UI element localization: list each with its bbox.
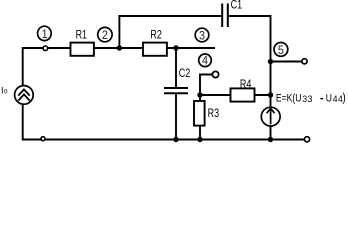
wire left vertical [22, 47, 24, 141]
svg-text:R2: R2 [150, 29, 162, 41]
node 1 [38, 26, 52, 40]
svg-text:3: 3 [199, 30, 205, 43]
junction node2 [117, 45, 122, 50]
svg-text:R4: R4 [240, 79, 252, 91]
wire bottom rail [22, 139, 305, 141]
resistor R3 [194, 101, 205, 126]
resistor R1 [71, 43, 94, 56]
svg-text:4: 4 [202, 55, 209, 68]
terminal node5 right [302, 59, 307, 64]
terminal bottom right [304, 137, 309, 142]
current source I0 [15, 86, 34, 105]
svg-text:R3: R3 [208, 108, 220, 120]
junction R3 bottom [197, 137, 202, 142]
svg-text:U: U [326, 92, 332, 104]
capacitor C1 [222, 4, 228, 28]
wire C2 bottom vertical [175, 93, 177, 140]
svg-text:C2: C2 [179, 68, 191, 80]
svg-text:0: 0 [4, 88, 8, 95]
svg-text:33: 33 [302, 94, 312, 105]
label E=K(U33 - U44) [276, 92, 346, 105]
junction C2 bottom [173, 137, 178, 142]
resistor R4 [231, 88, 255, 101]
junction node5 [268, 59, 273, 64]
wire C1 to right corner [228, 15, 271, 17]
wire C2 vertical [175, 48, 177, 88]
node 4 [199, 54, 212, 67]
svg-text:R1: R1 [76, 29, 88, 41]
wire R3 vertical [199, 95, 201, 140]
terminal on bottom rail [41, 137, 45, 141]
svg-text:): ) [342, 92, 346, 105]
junction node4 [197, 92, 202, 97]
wire node4 elbow [200, 75, 213, 97]
node 3 [195, 28, 209, 42]
node 5 [274, 43, 288, 57]
wire right vertical [270, 15, 272, 141]
svg-text:E=K(U: E=K(U [276, 92, 302, 104]
wire node2 vertical to top rail [118, 16, 120, 49]
node 2 [98, 27, 112, 41]
wire node5 stub [271, 61, 303, 63]
terminal on top wire [43, 46, 48, 51]
svg-text:5: 5 [278, 44, 284, 57]
junction node3 [173, 45, 178, 50]
capacitor C2 [164, 88, 188, 93]
svg-text:2: 2 [102, 30, 108, 43]
svg-text:1: 1 [42, 28, 48, 41]
junction E bottom [268, 137, 273, 142]
terminal node4 [212, 71, 218, 77]
resistor R2 [143, 43, 167, 56]
junction E top [268, 92, 273, 97]
wire top rail to C1 [118, 15, 221, 17]
svg-text:C1: C1 [231, 0, 243, 12]
wire main horizontal node1-2-3 [22, 47, 215, 49]
controlled source E [261, 107, 280, 126]
wire R4 horizontal [200, 94, 271, 96]
